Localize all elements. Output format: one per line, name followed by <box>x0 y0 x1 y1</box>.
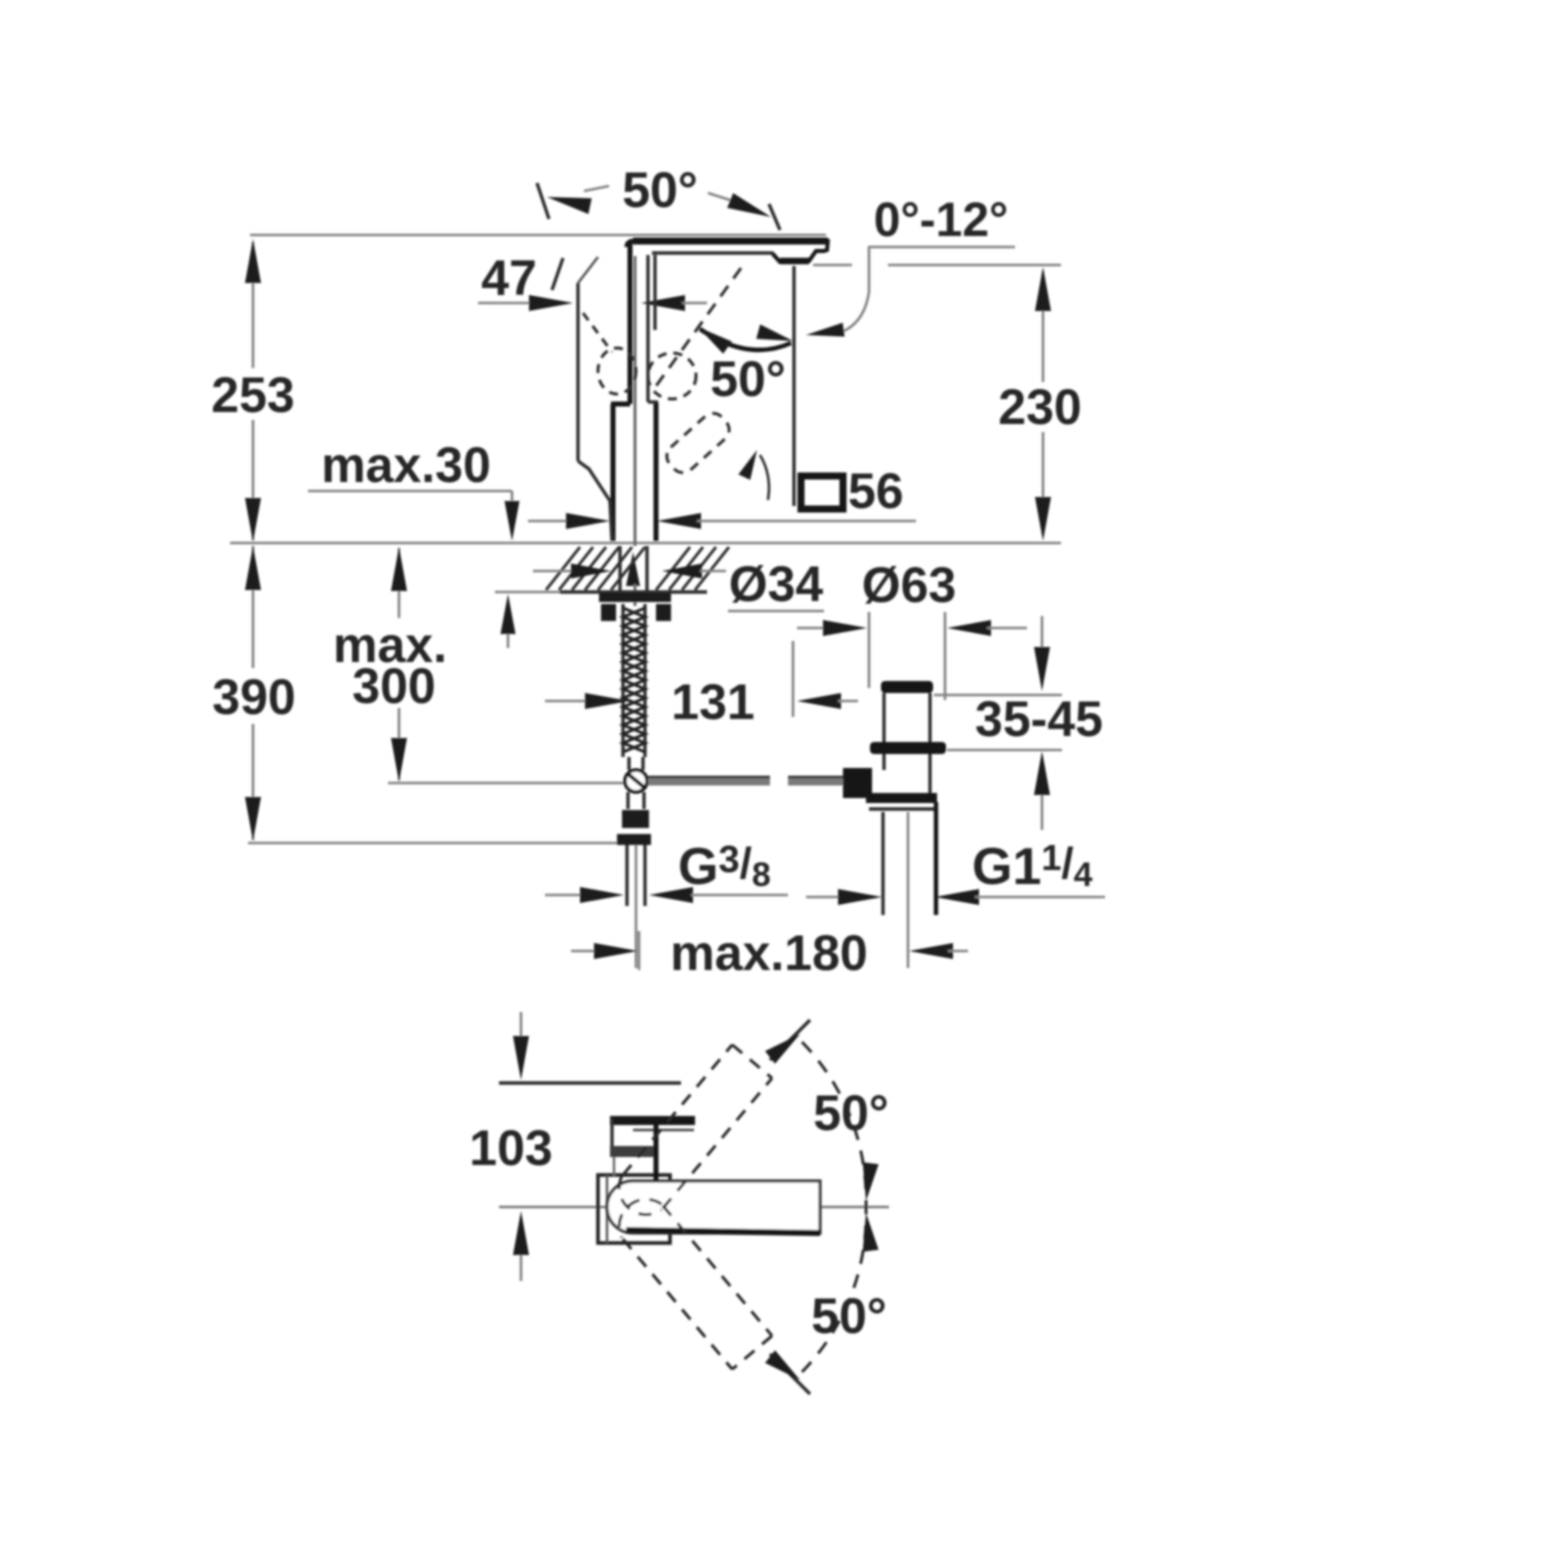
svg-text:230: 230 <box>998 379 1081 435</box>
swing arc top arrow <box>765 1034 800 1064</box>
lever dashed knob open <box>648 353 696 399</box>
svg-text:56: 56 <box>848 463 904 519</box>
svg-text:G3/8: G3/8 <box>678 838 771 896</box>
small front stub <box>613 1157 615 1176</box>
deck hatching right <box>656 547 690 590</box>
O63 extension lines <box>868 612 871 688</box>
counter/deck line <box>230 542 1061 545</box>
lever dashed short diagonal <box>583 313 612 352</box>
pop-up linkage horizontal rod <box>648 777 770 786</box>
hose end reference line (max.300 bottom) <box>388 782 640 785</box>
supply pipe center extension <box>635 845 638 968</box>
faucet spout underside <box>652 251 773 254</box>
svg-text:50°: 50° <box>813 1085 889 1141</box>
faucet pull rod <box>634 256 637 546</box>
dim 253 vertical line <box>252 242 255 368</box>
body back vertical <box>654 1125 659 1181</box>
swing arc top tick <box>770 1020 810 1060</box>
pull rod arrow <box>626 552 640 586</box>
lever dashed tilted end <box>662 408 734 477</box>
dim 103 bottom arrow <box>520 1252 523 1281</box>
faucet spout outlet <box>772 239 828 262</box>
base width dim line <box>528 520 570 523</box>
braided hose weave <box>623 608 645 752</box>
0-12 arc leader <box>836 247 869 334</box>
svg-text:103: 103 <box>469 1120 552 1176</box>
square 56 symbol <box>801 476 843 509</box>
faucet outlet lower lip bold <box>780 258 809 265</box>
swivel 50 right tick <box>769 204 780 230</box>
svg-text:300: 300 <box>352 658 435 714</box>
svg-text:0°-12°: 0°-12° <box>874 194 1008 247</box>
faucet spout top edge <box>633 238 828 245</box>
swing arc center arrows <box>863 1162 879 1201</box>
drain tailpipe center extension <box>907 812 910 968</box>
faucet body right shoulder <box>648 400 658 403</box>
side view base plate <box>598 1175 670 1243</box>
dim 131 right extension line <box>792 641 795 717</box>
lever dashed open position diagonal <box>651 268 741 393</box>
drain bottom cap <box>866 793 937 803</box>
dim 390 vertical line <box>252 546 255 668</box>
mounting nut right <box>656 604 671 621</box>
swivel 50 right arrow <box>708 193 736 202</box>
lever front edge <box>576 283 579 461</box>
swivel 50 left tick <box>537 183 549 219</box>
svg-text:max.180: max.180 <box>670 925 867 981</box>
supply pipe flange <box>617 834 651 845</box>
side view lever bar <box>610 1116 695 1125</box>
faucet housing right upper edge <box>653 255 656 330</box>
faucet vertical tube right edge <box>646 255 649 402</box>
dim max.300 vertical line <box>398 548 401 618</box>
dim G1 1/4 arrows <box>806 896 843 899</box>
svg-text:50°: 50° <box>622 162 698 218</box>
shank hole edges through deck <box>618 546 621 592</box>
dim max.180 arrows <box>571 950 598 953</box>
mounting nut left <box>601 604 616 621</box>
dim 35-45 vertical line <box>1041 616 1044 650</box>
barrel bottom edge bold <box>626 1230 820 1233</box>
lever dashed knob closed <box>598 348 636 394</box>
swing arc bottom arrow <box>765 1350 800 1380</box>
dim 131 right arrow <box>797 693 841 709</box>
faucet body column left edge <box>611 404 616 541</box>
braided hose outline <box>621 604 624 757</box>
faucet body column right edge <box>654 402 659 541</box>
dim max.180 left extension <box>638 931 641 970</box>
dim max.30 leader <box>308 490 512 493</box>
O63 dim arrows <box>797 627 827 630</box>
dashed barrel rotated up <box>609 1045 772 1225</box>
lever elbow to body <box>578 461 612 541</box>
svg-text:35-45: 35-45 <box>975 691 1103 747</box>
lever swing 50 deg arc <box>700 329 791 350</box>
escutcheon plate <box>599 593 671 602</box>
dim max.30 lower arrow <box>495 591 562 594</box>
lever underside line <box>633 1129 694 1132</box>
0-12 reference line upper <box>868 246 1015 249</box>
side view barrel body <box>607 1181 820 1233</box>
supply pipe body <box>625 845 628 906</box>
swivel 50 left arrow <box>547 197 592 214</box>
dim G3/8 arrows <box>545 894 585 897</box>
lever top link <box>578 257 598 283</box>
O34 dim arrows <box>533 570 572 573</box>
side view top reference line <box>499 1081 681 1084</box>
supply pipe connector nut <box>622 810 649 828</box>
outlet vertical reference line <box>792 266 795 506</box>
drain body upper <box>882 693 885 743</box>
cartridge band <box>610 1146 658 1157</box>
dim 230 vertical line <box>1042 271 1045 382</box>
faucet body shoulder <box>611 402 630 407</box>
svg-text:47: 47 <box>481 250 537 306</box>
swing arc bottom tick <box>770 1354 810 1394</box>
svg-text:50°: 50° <box>710 351 786 407</box>
svg-text:131: 131 <box>671 674 754 730</box>
O34 underline <box>728 610 824 613</box>
drain locknut <box>870 742 946 754</box>
faucet vertical tube left edge <box>628 244 633 404</box>
deck hatching left <box>546 547 580 590</box>
swing arc dashed <box>802 1042 866 1372</box>
supply pipe upper stub <box>626 792 629 809</box>
dim 131 left arrow <box>545 700 589 703</box>
side view center line <box>499 1206 889 1208</box>
drain side inlet <box>843 768 872 798</box>
svg-text:max.30: max.30 <box>321 437 491 493</box>
drain tailpipe left <box>881 812 884 915</box>
dim reference line top (spout height datum) <box>250 234 826 237</box>
pull rod through deck <box>634 584 637 606</box>
hose ball joint <box>625 770 647 792</box>
dim 103 top arrow <box>520 1012 523 1040</box>
drain tailpipe right <box>934 802 938 915</box>
deck underside line <box>560 590 707 593</box>
drain flange <box>881 681 933 693</box>
hose to ball stubs <box>627 757 630 770</box>
dashed barrel rotated down <box>609 1189 772 1369</box>
svg-text:50°: 50° <box>811 1288 887 1344</box>
dim 47 arrows <box>478 302 532 305</box>
svg-text:253: 253 <box>211 367 294 423</box>
svg-text:Ø34: Ø34 <box>729 556 824 612</box>
lever front edge <box>610 1118 613 1157</box>
0-12 reference line lower <box>813 264 852 267</box>
drain body lower <box>882 754 885 770</box>
svg-text:390: 390 <box>212 669 295 725</box>
bottom reference line (390 datum) <box>248 842 632 845</box>
dim 47 tick <box>552 258 563 290</box>
svg-text:G11/4: G11/4 <box>972 837 1093 896</box>
dim 35-45 ref lines <box>934 694 1062 697</box>
lever small motion arrow <box>738 450 757 480</box>
drain bottom seam <box>869 807 935 810</box>
svg-text:Ø63: Ø63 <box>862 557 957 613</box>
